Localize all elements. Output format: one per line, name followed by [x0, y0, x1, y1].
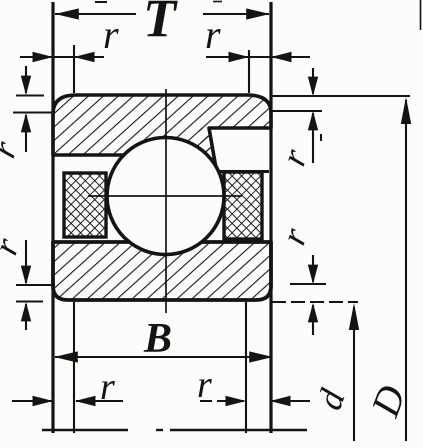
svg-text:T: T	[143, 0, 178, 48]
axis centerline	[42, 429, 128, 431]
right upper r dimension: tick at chamfer end	[271, 110, 322, 112]
stray speck top edge	[213, 1, 222, 3]
stray crop mark top right	[420, 0, 422, 30]
extension line x=249 (top-right chamfer)	[248, 50, 250, 93]
left lower r: up arrow	[25, 304, 27, 330]
svg-text:r: r	[205, 12, 221, 57]
right upper r: down arrow	[312, 68, 314, 94]
left face / extension line	[51, 2, 54, 433]
svg-text:r: r	[100, 366, 115, 408]
right lower r: up arrow	[312, 305, 314, 335]
right lower r: down arrow	[312, 255, 314, 282]
left upper r: up arrow	[25, 115, 27, 152]
bottom right r dimension: dashed tail, line and arrows	[200, 400, 244, 402]
cage block right (cross-hatched)	[224, 172, 262, 239]
left lower r: down arrow	[25, 240, 27, 283]
inner ring (hatched section)	[53, 242, 271, 300]
outer ring wedge near notch	[198, 127, 217, 176]
ball vertical centerline	[165, 89, 167, 313]
outer surface extension line to D	[272, 95, 410, 97]
dimension B line with arrows	[55, 356, 272, 358]
svg-text:r: r	[197, 364, 212, 406]
ball horizontal centerline	[88, 195, 242, 197]
bore extension dashed line	[272, 301, 358, 303]
extension line below x=74	[73, 302, 75, 433]
left upper r dimension: tick at outer surface level	[16, 94, 44, 96]
dimension T line left segment with arrow	[55, 13, 269, 15]
outer ring (hatched section)	[53, 95, 271, 171]
svg-text:B: B	[143, 316, 172, 362]
right face / extension line	[269, 2, 272, 433]
left lower r dimension: tick at chamfer end	[16, 284, 55, 286]
stray mark top edge	[95, 1, 107, 3]
ball	[107, 138, 224, 255]
right lower r dimension: tick at chamfer end	[290, 283, 326, 285]
right upper r: up arrow	[312, 113, 314, 163]
stray speck right area	[320, 134, 322, 141]
dimension r top-right: line and arrows	[206, 56, 310, 58]
dimension d vertical line with up arrow	[353, 307, 355, 441]
dimension D vertical line with up arrow	[405, 100, 407, 441]
notch bottom edge	[215, 170, 269, 173]
extension line x=74 (top-left chamfer)	[73, 45, 75, 93]
left upper r: down arrow	[25, 66, 27, 93]
left lower r dimension: tick at bore level	[16, 300, 43, 302]
extension line below x=246	[245, 302, 247, 433]
dimension r top-left: line and arrows	[20, 56, 104, 58]
left upper r dimension: tick at chamfer end	[13, 111, 53, 113]
bottom left r dimension: line and arrows	[12, 400, 52, 402]
svg-text:r: r	[103, 12, 119, 57]
cage block left (cross-hatched)	[64, 173, 106, 237]
